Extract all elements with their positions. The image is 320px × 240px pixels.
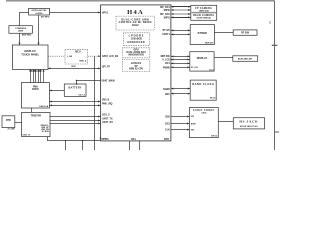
sheet right border [274,1,276,151]
svg-text:USB_1V: USB_1V [23,135,31,137]
svg-text:MIPI1: MIPI1 [164,17,171,19]
svg-text:CIR 15: CIR 15 [211,136,218,138]
dashed wire display to MCU [48,55,65,57]
backlight boost box [233,56,258,62]
wire gyro left to compass top [20,13,29,26]
wire compass bottom to display top [19,33,21,45]
wire H4A to audio 2 [171,123,189,125]
backlight wire 2 [33,69,35,82]
svg-text:TRISTAR: TRISTAR [30,114,41,117]
svg-text:OMNI 645: OMNI 645 [199,9,210,12]
wire H4A to BT 2 [171,33,190,35]
MCU dashed box [65,49,88,64]
svg-text:I2C0_S: I2C0_S [102,115,110,117]
wire tristar to H4A UART TX [50,120,100,122]
rail drop 1 [65,141,67,150]
PMU box [21,83,49,108]
wire BT to RF [214,32,233,34]
svg-text:TOUCH PANEL: TOUCH PANEL [21,53,39,56]
wire display to backlight boost [214,57,233,59]
svg-text:UART1: UART1 [162,33,170,36]
compass box U3 [9,26,33,37]
svg-text:AKM: AKM [18,30,23,33]
svg-text:GYRO+ACCEL: GYRO+ACCEL [31,9,47,12]
svg-text:1GHZ: 1GHZ [132,23,139,27]
op H4A SoC U1 (main box) [101,5,171,141]
box bottom drop 2 [139,141,141,150]
wire H4A to audio 3 [171,129,189,131]
wire gyro to H4A [50,12,101,14]
svg-text:KPB: KPB [164,139,169,141]
svg-text:CLK: CLK [165,130,170,132]
display/touch panel box [12,45,48,69]
svg-text:ANC: ANC [165,93,170,96]
svg-text:GPIO0: GPIO0 [102,139,110,141]
wire gyro bottom to display top [38,15,40,45]
wire H4A to camera 1 [171,6,191,8]
wire tristar bottom to rail [48,137,101,141]
sheet top border [6,0,275,2]
BTB box [2,116,15,131]
svg-text:DISPLAY: DISPLAY [197,57,208,60]
svg-text:HS JACK: HS JACK [239,120,258,124]
border zone tick lower [275,131,279,133]
svg-text:DIA 81+A: DIA 81+A [39,105,48,108]
wire tristar to H4A I2C0 [50,116,100,118]
VIDEO dashed block [122,60,149,72]
wire H4A to camera 3 [171,13,191,15]
stub PMU to tristar [31,108,33,112]
svg-text:ARM A5 CPU: ARM A5 CPU [129,68,144,71]
GPU dashed block [122,48,149,58]
wire H4A to display 3 [171,62,190,64]
svg-text:CS35: CS35 [201,113,207,115]
svg-text:L_EN: L_EN [67,56,73,58]
svg-text:AUDIO CODEC: AUDIO CODEC [193,109,215,112]
wire PMU to H4A SWI [49,101,100,103]
wire H4A to display 1 [171,55,190,57]
svg-text:HPX1: HPX1 [102,12,109,14]
svg-text:PWM0: PWM0 [163,67,171,69]
svg-text:SPI_TP: SPI_TP [102,66,110,68]
CPU dashed block [116,16,154,30]
svg-text:REAR CAMERA: REAR CAMERA [193,14,214,17]
audio codec box [189,108,218,138]
svg-text:AVE00: AVE00 [131,61,142,65]
svg-text:SWI_B: SWI_B [102,100,110,102]
backlight wire 4 [38,69,40,82]
svg-text:NAND: NAND [163,88,170,91]
svg-text:M_LCD: M_LCD [191,67,198,69]
wire audio to HS jack [218,121,233,123]
svg-text:PMU: PMU [33,87,38,89]
HS jack box [233,118,264,129]
svg-text:D2255: D2255 [32,89,39,91]
wire BTB to tristar [15,122,22,124]
svg-text:ASW: ASW [191,123,196,126]
svg-text:GPU: GPU [134,49,139,52]
svg-text:INV MPU: INV MPU [41,16,50,18]
bus wire vertical [94,56,96,150]
svg-text:BATTERY: BATTERY [69,86,82,89]
svg-text:COMPASS: COMPASS [15,27,26,30]
wire battery top to H4A VBAT [77,81,101,85]
svg-text:NAND FLASH: NAND FLASH [192,82,214,86]
svg-text:MIPI DSI: MIPI DSI [161,56,171,58]
RAM dashed block [123,33,149,46]
svg-text:UART_TX: UART_TX [102,118,113,121]
svg-text:H4A: H4A [127,9,144,16]
svg-text:MCU: MCU [75,51,81,54]
junction battery top [76,83,78,85]
wire H4A to NAND 2 [171,93,190,95]
svg-text:V_LCD: V_LCD [162,60,170,62]
svg-text:EMBEDDED: EMBEDDED [127,41,145,44]
svg-text:BT/WIFI: BT/WIFI [198,32,208,35]
SPI wire display to H4A [48,67,100,69]
display connector box right [190,52,215,72]
box bottom drop 1 [129,141,131,150]
camera box [191,5,217,20]
svg-text:RF S/W: RF S/W [241,33,250,35]
wire H4A to NAND 1 [171,88,190,90]
wire H4A to camera 2 [171,9,191,11]
svg-text:GA 7.4: GA 7.4 [78,94,85,97]
rail drop 2 [82,141,84,150]
svg-text:BTB: BTB [6,119,11,122]
svg-text:MIC: MIC [191,130,195,132]
svg-text:C: C [269,20,271,24]
svg-text:IMAGINATION: IMAGINATION [128,54,144,57]
tristar box [22,112,50,136]
backlight wire 6 [43,69,45,82]
wire H4A to camera 4 [171,16,191,18]
svg-text:SK 16: SK 16 [210,97,216,99]
svg-text:AKM 8963: AKM 8963 [22,34,32,37]
dashed wire MCU to H4A [88,55,101,57]
svg-text:ISP_I2C0: ISP_I2C0 [160,14,171,16]
svg-text:SWD_A: SWD_A [79,60,87,63]
svg-text:I2C1: I2C1 [165,63,171,65]
svg-text:MUR 339: MUR 339 [205,42,214,44]
backlight wire 1 [30,69,32,82]
svg-text:PMU_IRQ: PMU_IRQ [102,104,113,106]
gyro/accel box U2 (top-left) [29,8,50,18]
svg-text:I2C3: I2C3 [165,124,171,126]
svg-text:BT I2S: BT I2S [163,30,171,32]
svg-text:MIPI0: MIPI0 [164,10,171,12]
svg-text:BCKL/BB JNT: BCKL/BB JNT [238,59,253,61]
RF switch box [233,30,257,35]
wire tristar to H4A UART RX [50,123,100,125]
battery box [64,84,86,97]
border zone tick upper [272,44,278,46]
svg-text:6-AXIS: 6-AXIS [35,12,43,15]
wire H4A to display 2 [171,59,190,61]
svg-text:GPIO_LCD_EN: GPIO_LCD_EN [102,56,119,58]
svg-text:JC USB: JC USB [7,129,15,131]
NAND flash box [190,80,216,100]
svg-text:4POLE JACK PLUG: 4POLE JACK PLUG [240,125,258,128]
wire H4A to BT 1 [171,29,190,31]
backlight wire 5 [40,69,42,82]
svg-text:VBAT_MAIN: VBAT_MAIN [101,80,115,83]
BT/WIFI box [190,25,214,45]
wire H4A to display 4 [171,66,190,68]
svg-text:ISP_I2C1: ISP_I2C1 [160,7,171,9]
svg-text:UART_RX: UART_RX [102,121,113,124]
wire H4A to audio 1 [171,116,189,118]
wire PMU to H4A IRQ [49,104,100,106]
svg-text:SONY IMX145: SONY IMX145 [197,17,212,20]
wire battery to PMU [49,90,64,92]
svg-text:I2S1: I2S1 [131,139,136,141]
backlight wire 3 [35,69,37,82]
svg-text:ID_BUS: ID_BUS [42,131,50,133]
svg-text:I2S0: I2S0 [165,116,170,118]
